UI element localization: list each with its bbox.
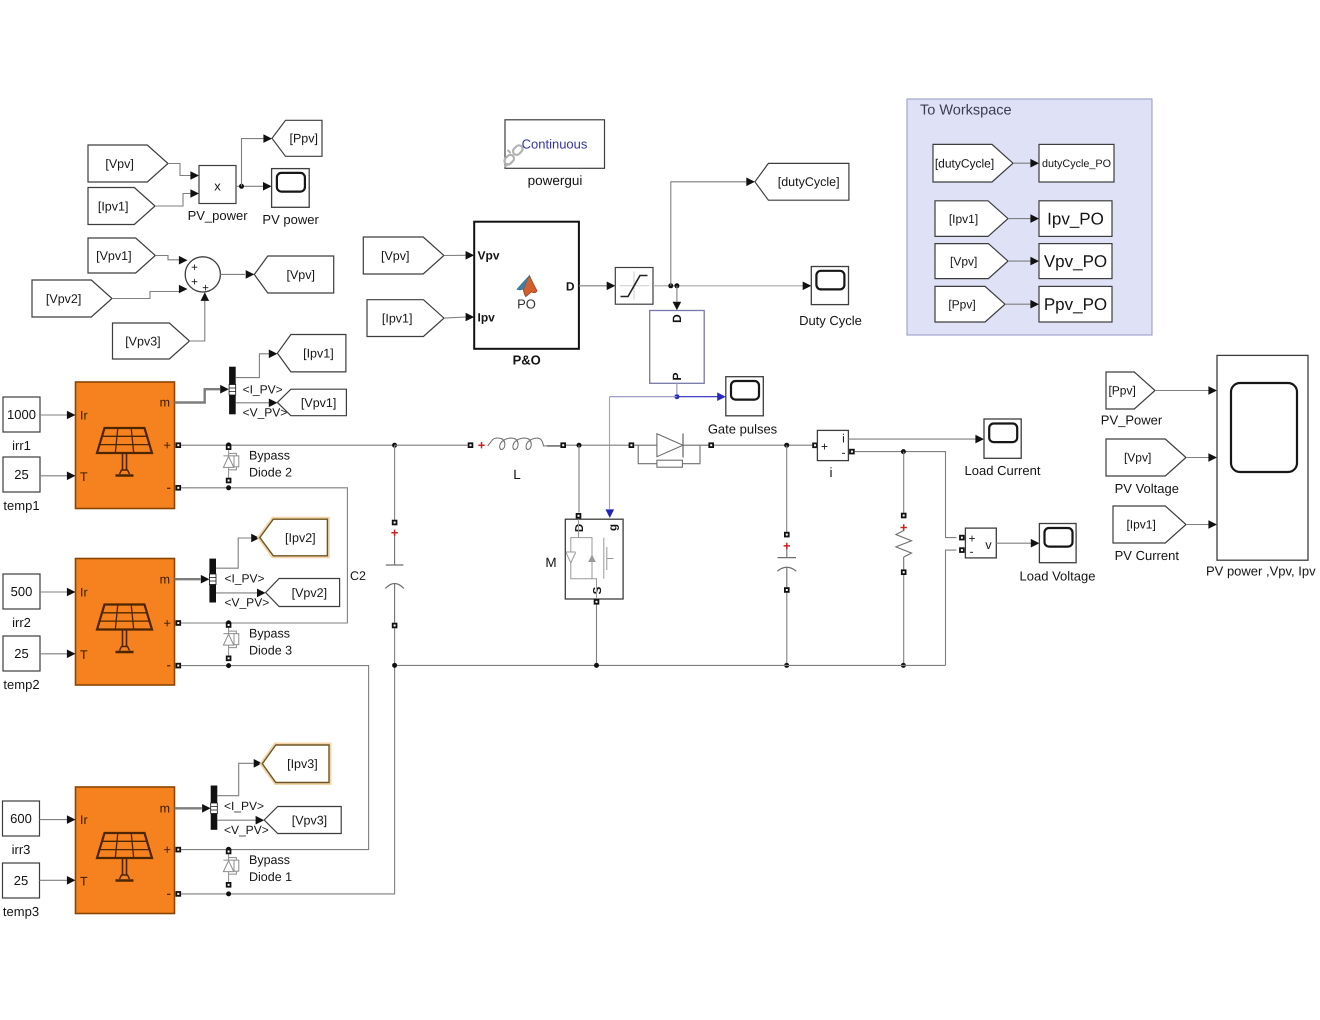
- svg-text:PV power ,Vpv, Ipv: PV power ,Vpv, Ipv: [1206, 564, 1316, 579]
- svg-text:irr3: irr3: [12, 842, 31, 857]
- wire gate node to Gate pulses scope: [677, 392, 726, 401]
- svg-text:<I_PV>: <I_PV>: [225, 572, 265, 586]
- label L: [513, 467, 521, 482]
- label Load Current: [965, 463, 1041, 478]
- label I_PV selector 1: [243, 383, 283, 397]
- svg-text:[Vpv]: [Vpv]: [950, 254, 977, 268]
- label Gate pulses: [708, 422, 778, 437]
- svg-text:Vpv_PO: Vpv_PO: [1044, 252, 1107, 271]
- wire bus3 out2 to [Vpv3]: [217, 816, 264, 825]
- svg-text:v: v: [985, 538, 992, 552]
- bypass diode 3: [223, 620, 238, 661]
- label V_PV selector 2: [225, 596, 270, 610]
- junction PV2- bypass: [226, 663, 231, 668]
- wire to [dutyCycle] goto: [671, 178, 755, 286]
- svg-text:[Ipv1]: [Ipv1]: [382, 311, 413, 325]
- constant irr3 600: [3, 801, 40, 836]
- svg-text:Ir: Ir: [80, 813, 88, 827]
- wire L to port: [547, 445, 561, 447]
- label irr2: [12, 615, 31, 630]
- svg-text:P&O: P&O: [513, 353, 541, 368]
- svg-text:+: +: [163, 438, 171, 453]
- junction node sat out b: [674, 283, 679, 288]
- svg-text:PV_power: PV_power: [188, 208, 249, 223]
- svg-text:D: D: [670, 314, 684, 323]
- from tag [Vpv2] (to sum): [32, 280, 112, 317]
- label temp2: [3, 677, 39, 692]
- svg-text:[dutyCycle]: [dutyCycle]: [935, 156, 994, 170]
- powergui block: [503, 120, 605, 169]
- svg-text:-: -: [970, 545, 974, 559]
- constant temp1 25: [3, 457, 40, 492]
- wire [Vpv] to P&O Vpv: [444, 251, 474, 260]
- wire P&O D to saturation: [579, 282, 615, 291]
- wire PV3 - to return rail: [181, 665, 395, 894]
- svg-text:[Vpv2]: [Vpv2]: [46, 292, 81, 306]
- port MOSFET D: [576, 513, 582, 519]
- svg-text:+: +: [968, 532, 975, 546]
- svg-text:PO: PO: [517, 297, 536, 312]
- from tag [Vpv1] (to sum): [88, 238, 155, 273]
- wire MOSFET S to rail: [596, 605, 598, 666]
- wire [Vpv1] to sum: [155, 256, 187, 265]
- PV array 2 block: [67, 559, 175, 686]
- wire temp1 to T: [40, 475, 67, 477]
- bus selector PV3: [211, 786, 218, 830]
- inductor L: [488, 438, 547, 449]
- svg-text:Ipv: Ipv: [478, 311, 496, 325]
- from tag [Ipv1] (to scope): [1113, 506, 1186, 543]
- wire bus1 out1 to [Ipv1]: [236, 350, 278, 378]
- port PV2 -: [176, 663, 182, 669]
- wire temp3 to T: [40, 879, 68, 881]
- svg-text:<I_PV>: <I_PV>: [224, 799, 264, 813]
- saturation block: [615, 268, 653, 305]
- from tag [Ppv] (workspace): [935, 286, 1005, 322]
- svg-text:[Ipv2]: [Ipv2]: [285, 531, 316, 545]
- svg-text:g: g: [608, 524, 620, 531]
- svg-text:500: 500: [11, 584, 33, 599]
- label PV_Power: [1101, 413, 1163, 428]
- wire bus1 out2 to [Vpv1]: [236, 399, 278, 408]
- diode D1: [634, 434, 708, 468]
- scope PV power Vpv Ipv: [1217, 355, 1308, 560]
- wire i out to v plus: [855, 452, 957, 538]
- wire PV1 - to series link: [181, 488, 347, 623]
- label P&O: [513, 353, 541, 368]
- svg-text:Ir: Ir: [80, 586, 88, 600]
- svg-text:<V_PV>: <V_PV>: [224, 823, 269, 837]
- label I_PV selector 3: [224, 799, 264, 813]
- svg-text:[Vpv1]: [Vpv1]: [301, 396, 336, 410]
- svg-text:D: D: [566, 280, 575, 294]
- wire Ipv1 to scope: [1186, 520, 1217, 529]
- wire temp2 to T: [40, 653, 67, 655]
- svg-text:[Ppv]: [Ppv]: [290, 132, 319, 146]
- constant temp2 25: [3, 636, 40, 671]
- wire irr1 to Ir: [40, 414, 67, 416]
- svg-text:[dutyCycle]: [dutyCycle]: [778, 175, 840, 189]
- svg-text:Bypass: Bypass: [249, 449, 290, 463]
- output capacitor branch: [777, 445, 796, 665]
- sum block Add: [185, 257, 220, 295]
- junction output cap branch: [784, 443, 789, 448]
- constant irr1 1000: [3, 397, 40, 432]
- bypass diode 2: [223, 442, 238, 483]
- svg-text:-: -: [842, 446, 846, 460]
- svg-text:+: +: [163, 616, 171, 631]
- from tag [Ipv1] (to P&O): [367, 300, 444, 337]
- red plus L: [478, 442, 484, 448]
- wire Ppv to scope: [1155, 386, 1217, 395]
- svg-text:To Workspace: To Workspace: [920, 103, 1012, 119]
- label C2: [350, 569, 366, 583]
- svg-text:T: T: [80, 470, 88, 484]
- svg-text:+: +: [191, 277, 198, 289]
- svg-text:+: +: [821, 440, 828, 454]
- wire Vpv to scope: [1186, 453, 1217, 462]
- svg-text:[Vpv]: [Vpv]: [381, 249, 410, 263]
- gate junction node (blue): [674, 394, 679, 399]
- port PV1 -: [176, 485, 182, 491]
- from tag [Vpv3] (to sum): [113, 323, 190, 359]
- svg-text:Diode 1: Diode 1: [249, 870, 292, 884]
- label i: [830, 465, 833, 480]
- svg-text:irr1: irr1: [12, 438, 31, 453]
- wire i signal to Load Current: [848, 435, 984, 444]
- label Bypass Diode 2: [249, 449, 292, 480]
- svg-text:T: T: [80, 874, 88, 888]
- goto tag [Vpv]: [254, 256, 333, 293]
- wire [Vpv2] to sum: [112, 285, 188, 299]
- to-workspace block Ipv_PO: [1039, 201, 1112, 237]
- wire irr3 to Ir: [40, 819, 68, 821]
- svg-text:<V_PV>: <V_PV>: [225, 596, 270, 610]
- port PV3 -: [176, 891, 182, 897]
- bus selector PV1: [229, 367, 236, 415]
- scope Load Voltage: [1039, 524, 1076, 563]
- svg-text:-: -: [166, 479, 171, 495]
- to-workspace block Vpv_PO: [1039, 244, 1112, 279]
- svg-text:PV power: PV power: [262, 212, 319, 227]
- label I_PV selector 2: [225, 572, 265, 586]
- from tag [Ppv] (to scope): [1106, 372, 1155, 409]
- junction node sat out a: [668, 283, 673, 288]
- wire irr2 to Ir: [40, 591, 67, 593]
- svg-text:Diode 3: Diode 3: [249, 644, 292, 658]
- junction resistor branch: [901, 449, 906, 454]
- from tag [Ipv1] (workspace): [935, 201, 1008, 237]
- svg-text:PV Voltage: PV Voltage: [1115, 481, 1179, 496]
- svg-text:<I_PV>: <I_PV>: [243, 383, 283, 397]
- port diode right: [708, 442, 714, 448]
- svg-text:Bypass: Bypass: [249, 627, 290, 641]
- svg-text:m: m: [160, 802, 170, 816]
- wire dutyCycle to workspace: [1013, 159, 1039, 168]
- scope Duty Cycle: [811, 267, 848, 305]
- svg-text:[Ipv1]: [Ipv1]: [949, 212, 978, 226]
- wire P out to gate node: [676, 383, 678, 394]
- wire Vpv to workspace: [1008, 257, 1039, 266]
- port PV1 +: [176, 442, 182, 448]
- to-workspace block dutyCycle_PO: [1039, 144, 1114, 182]
- svg-text:Ir: Ir: [80, 409, 88, 423]
- label PV_power: [188, 208, 249, 223]
- svg-text:+: +: [191, 262, 198, 274]
- svg-text:temp3: temp3: [3, 904, 39, 919]
- goto tag [Vpv1] (from PV1): [277, 389, 346, 416]
- goto tag [Ipv3] (highlighted): [262, 745, 329, 783]
- svg-text:600: 600: [10, 811, 32, 826]
- wire PV2 m to bus selector: [174, 575, 209, 584]
- svg-text:[Vpv]: [Vpv]: [287, 268, 316, 282]
- label Load Voltage: [1020, 569, 1096, 584]
- wire PV1 + to rail: [181, 444, 395, 446]
- from tag [dutyCycle] (workspace): [933, 144, 1013, 182]
- wire gate node to MOSFET g: [606, 397, 677, 518]
- svg-text:temp2: temp2: [3, 677, 39, 692]
- svg-text:Bypass: Bypass: [249, 853, 290, 867]
- svg-text:<V_PV>: <V_PV>: [243, 405, 288, 419]
- svg-text:M: M: [545, 555, 556, 570]
- svg-text:Ipv_PO: Ipv_PO: [1047, 210, 1104, 229]
- wire [Ipv1] to product in2: [155, 189, 199, 206]
- MATLAB icon PO: [517, 276, 537, 312]
- svg-text:L: L: [513, 467, 521, 482]
- svg-text:m: m: [160, 572, 170, 586]
- wire PV2 - to series link: [181, 666, 369, 850]
- junction resistor bottom: [901, 663, 906, 668]
- label temp1: [3, 498, 39, 513]
- wire bus2 out1 to [Ipv2]: [216, 534, 260, 569]
- junction rail PV3 return: [392, 663, 397, 668]
- svg-text:[Ppv]: [Ppv]: [948, 297, 975, 311]
- svg-text:PV Current: PV Current: [1115, 548, 1180, 563]
- PV array 3 block: [67, 787, 175, 914]
- svg-text:25: 25: [14, 646, 28, 661]
- wire saturation to Duty Cycle scope: [653, 282, 811, 291]
- wire Ppv to workspace: [1005, 300, 1039, 309]
- label M: [545, 555, 556, 570]
- wire D branch to MOSFET: [578, 445, 580, 512]
- wire PV1 m to bus selector: [174, 385, 228, 403]
- label V_PV selector 3: [224, 823, 269, 837]
- scope Gate pulses: [726, 377, 764, 416]
- svg-text:[Ppv]: [Ppv]: [1108, 384, 1135, 398]
- wire [Vpv] to product in1: [168, 164, 199, 180]
- svg-text:Ppv_PO: Ppv_PO: [1044, 295, 1107, 314]
- svg-text:temp1: temp1: [3, 498, 39, 513]
- bus selector PV2: [209, 559, 216, 603]
- svg-text:[Vpv]: [Vpv]: [105, 157, 134, 171]
- label V_PV selector 1: [243, 405, 288, 419]
- svg-text:S: S: [592, 586, 604, 594]
- wire rail PV1+ to L: [395, 444, 468, 446]
- wire product out to scope: [236, 182, 272, 191]
- svg-text:Duty Cycle: Duty Cycle: [799, 313, 862, 328]
- scope PV power: [272, 169, 310, 208]
- svg-text:dutyCycle_PO: dutyCycle_PO: [1042, 158, 1111, 170]
- svg-text:[Ipv1]: [Ipv1]: [1126, 518, 1155, 532]
- port PV2 +: [176, 620, 182, 626]
- wire [Ipv1] to P&O Ipv: [444, 313, 474, 322]
- svg-text:C2: C2: [350, 569, 366, 583]
- svg-text:[Vpv2]: [Vpv2]: [292, 586, 327, 600]
- label temp3: [3, 904, 39, 919]
- label PV Current: [1115, 548, 1180, 563]
- junction top rail C2: [392, 443, 397, 448]
- bypass diode 1: [223, 847, 238, 888]
- svg-text:Load Current: Load Current: [965, 463, 1041, 478]
- label PV power Vpv Ipv: [1206, 564, 1316, 579]
- to-workspace block Ppv_PO: [1039, 286, 1112, 322]
- constant irr2 500: [3, 574, 40, 609]
- svg-text:powergui: powergui: [528, 173, 583, 188]
- port MOSFET S: [594, 599, 600, 605]
- subsystem D-P (duty to pulses): [650, 311, 705, 384]
- port L right: [560, 442, 566, 448]
- svg-text:+: +: [202, 283, 209, 295]
- goto tag [Ipv1] (from PV1): [277, 335, 346, 372]
- subsystem P&O: [474, 222, 579, 349]
- resistor R branch: [896, 452, 912, 666]
- svg-text:[Vpv]: [Vpv]: [1124, 451, 1151, 465]
- svg-text:irr2: irr2: [12, 615, 31, 630]
- svg-text:[Ipv1]: [Ipv1]: [303, 347, 334, 361]
- current measurement i block: [812, 430, 854, 460]
- svg-text:[Ipv3]: [Ipv3]: [287, 757, 318, 771]
- wire junction to DP block: [673, 286, 682, 311]
- svg-text:[Vpv3]: [Vpv3]: [125, 334, 160, 348]
- svg-text:+: +: [163, 842, 171, 857]
- junction node product out: [239, 184, 244, 189]
- product block PV_power: [199, 166, 236, 204]
- svg-text:25: 25: [14, 873, 28, 888]
- wire Ipv1 to workspace: [1008, 214, 1039, 223]
- bottom return rail: [395, 664, 946, 666]
- junction output cap bottom: [784, 663, 789, 668]
- from tag [Vpv] (to scope): [1106, 439, 1186, 476]
- goto tag [Vpv3] (from PV3): [264, 807, 341, 834]
- scope Load Current: [984, 419, 1021, 458]
- svg-text:[Vpv1]: [Vpv1]: [96, 249, 131, 263]
- label Duty Cycle: [799, 313, 862, 328]
- svg-text:[Vpv3]: [Vpv3]: [292, 813, 327, 827]
- label powergui: [528, 173, 583, 188]
- voltage measurement v block: [959, 528, 996, 558]
- svg-text:[Ipv1]: [Ipv1]: [98, 199, 129, 213]
- from tag [Ipv1] (to product): [88, 188, 155, 225]
- wire v minus to rail: [946, 550, 957, 665]
- svg-text:1000: 1000: [7, 407, 36, 422]
- svg-text:D: D: [574, 524, 586, 532]
- svg-text:x: x: [214, 179, 221, 194]
- junction PV1- bypass: [226, 485, 231, 490]
- wire [Vpv3] to sum: [189, 292, 209, 341]
- svg-text:Load Voltage: Load Voltage: [1020, 569, 1096, 584]
- To Workspace panel: [907, 99, 1152, 335]
- wire PV3 m to bus selector: [174, 804, 210, 813]
- svg-text:25: 25: [14, 467, 28, 482]
- svg-text:i: i: [830, 465, 833, 480]
- junction PV3- bypass: [226, 891, 231, 896]
- wire bus2 out2 to [Vpv2]: [216, 589, 266, 598]
- svg-text:i: i: [842, 432, 845, 446]
- svg-text:PV_Power: PV_Power: [1101, 413, 1163, 428]
- capacitor C2 branch: [385, 445, 403, 665]
- goto tag [Ppv]: [272, 120, 322, 156]
- wire diode to i block: [714, 444, 812, 446]
- wire L port to diode port: [566, 444, 629, 446]
- constant temp3 25: [3, 863, 40, 898]
- port L left: [468, 442, 474, 448]
- svg-text:P: P: [670, 372, 684, 380]
- MOSFET block M: [565, 519, 623, 599]
- svg-text:Gate pulses: Gate pulses: [708, 422, 778, 437]
- svg-text:Diode 2: Diode 2: [249, 466, 292, 480]
- wire v out to Load Voltage: [996, 539, 1039, 548]
- wire product out to [Ppv]: [242, 134, 273, 186]
- port diode left: [629, 442, 635, 448]
- goto tag [dutyCycle]: [755, 163, 849, 200]
- junction MOSFET D branch: [577, 443, 582, 448]
- svg-text:Continuous: Continuous: [522, 137, 588, 152]
- label irr1: [12, 438, 31, 453]
- svg-text:-: -: [166, 885, 171, 901]
- goto tag [Vpv2] (from PV2): [266, 579, 340, 607]
- label Bypass Diode 1: [249, 853, 292, 884]
- svg-text:m: m: [160, 396, 170, 410]
- label irr3: [12, 842, 31, 857]
- goto tag [Ipv2] (highlighted): [260, 519, 328, 556]
- from tag [Vpv] (to P&O): [363, 237, 444, 274]
- wire sum out to [Vpv]: [220, 270, 254, 279]
- PV array 1 block: [67, 382, 175, 509]
- from tag [Vpv] (workspace): [935, 244, 1008, 279]
- svg-text:T: T: [80, 648, 88, 662]
- label Bypass Diode 3: [249, 627, 292, 658]
- label PV power: [262, 212, 319, 227]
- port PV3 +: [176, 847, 182, 853]
- from tag [Vpv] (to product): [88, 145, 168, 182]
- junction rail MOSFET S: [594, 663, 599, 668]
- wire bus3 out1 to [Ipv3]: [217, 759, 262, 796]
- label PV Voltage: [1115, 481, 1179, 496]
- svg-text:Vpv: Vpv: [478, 249, 500, 263]
- svg-text:-: -: [166, 657, 171, 673]
